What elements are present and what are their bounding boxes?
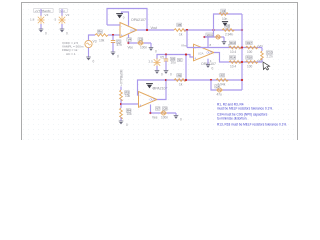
U1 feedback loop wire [107, 9, 147, 31]
svg-text:5: 5 [55, 18, 57, 22]
capacitor C6 [165, 55, 167, 60]
ground [149, 48, 154, 51]
resistor R3 [229, 46, 241, 49]
svg-text:R13, R18 must be MELF resistor: R13, R18 must be MELF resistors toleranc… [217, 123, 287, 127]
source V3 circle [85, 40, 92, 47]
node at riser x213 [212, 29, 214, 31]
svg-text:OUT: OUT [130, 28, 136, 32]
U1 V+ stub into loop [122, 12, 129, 26]
svg-text:Vcm: Vcm [207, 33, 213, 37]
svg-text:2.5: 2.5 [149, 60, 154, 64]
node rail1/col [241, 46, 243, 48]
ground under chain [119, 121, 124, 124]
svg-text:+: + [194, 57, 196, 61]
source V4 [37, 16, 44, 25]
resistor R4 [246, 46, 258, 49]
svg-text:2.94k: 2.94k [225, 33, 233, 37]
svg-text:Vee: Vee [152, 116, 158, 120]
node divider mid [120, 103, 122, 105]
svg-text:V2: V2 [66, 13, 70, 17]
ground under V2 [60, 29, 65, 32]
svg-text:C3: C3 [222, 9, 226, 13]
svg-text:0: 0 [155, 50, 157, 54]
svg-text:+VTPBattM: +VTPBattM [35, 9, 51, 13]
svg-text:47n: 47n [117, 43, 123, 47]
svg-text:OUT: OUT [150, 98, 156, 102]
svg-text:1k: 1k [179, 33, 183, 37]
pin label boxes [127, 38, 132, 41]
svg-text:+: + [139, 103, 141, 107]
wire V4 top [40, 9, 42, 16]
svg-text:1.8: 1.8 [30, 18, 35, 22]
svg-text:10k: 10k [99, 38, 105, 42]
svg-text:must be MELF resistors toleran: must be MELF resistors tolerance 0.1%. [217, 106, 273, 110]
svg-text:0: 0 [117, 55, 119, 59]
U3 feedback loop [138, 80, 167, 100]
ground under V3 [86, 57, 91, 60]
page background [0, 0, 320, 140]
svg-text:R5: R5 [178, 23, 182, 27]
ground inside U1 loop [116, 13, 123, 15]
svg-text:R10: R10 [230, 41, 236, 45]
svg-text:0: 0 [212, 67, 214, 71]
svg-text:100: 100 [247, 64, 253, 68]
node y80 at x211 [210, 79, 212, 81]
svg-text:V4: V4 [128, 38, 132, 42]
svg-text:+: + [121, 34, 123, 38]
wire V3 to gnd [88, 48, 90, 58]
U1 output wire [137, 29, 174, 31]
resistor R8 vertical [120, 108, 123, 119]
node rail2/col [241, 61, 243, 63]
svg-text:1k: 1k [179, 82, 183, 86]
node y80 at x186 [185, 79, 187, 81]
svg-text:R14: R14 [230, 56, 236, 60]
U1 output node [146, 29, 148, 31]
source V2 [58, 16, 65, 25]
resistor R2 in row [222, 29, 234, 32]
svg-text:0: 0 [45, 32, 47, 36]
wire R1 to node [185, 29, 243, 31]
svg-text:AC = 1: AC = 1 [66, 52, 76, 56]
node y80 at x242 [241, 79, 243, 81]
rail y62 [229, 61, 262, 63]
svg-text:+VTPBattM: +VTPBattM [119, 69, 123, 86]
svg-text:47u: 47u [217, 93, 223, 97]
riser x213 loop [214, 14, 243, 37]
svg-text:-: - [121, 24, 122, 28]
svg-text:OPA2107: OPA2107 [153, 86, 168, 90]
svg-text:C4: C4 [216, 84, 220, 88]
svg-text:0: 0 [126, 123, 128, 127]
svg-text:10.4: 10.4 [230, 50, 236, 54]
node at C6 [165, 53, 167, 55]
wire to U3 + input [121, 103, 139, 105]
svg-text:0: 0 [66, 32, 68, 36]
resistor R6 [246, 61, 258, 64]
wire corner to ground [150, 43, 152, 48]
svg-text:10.4: 10.4 [230, 64, 236, 68]
svg-text:Vfm: Vfm [181, 44, 187, 48]
svg-text:V5: V5 [160, 56, 164, 60]
svg-text:R6: R6 [178, 73, 182, 77]
svg-text:to minimize distortion.: to minimize distortion. [217, 116, 247, 120]
U1 V- stub [128, 34, 130, 43]
svg-text:10u: 10u [171, 61, 177, 65]
ground inside U3 loop [146, 83, 153, 85]
ground under C1 [111, 52, 116, 55]
column x242 down [241, 14, 243, 90]
svg-text:-: - [195, 46, 196, 50]
schematic canvas with faint grid dots [21, 2, 298, 140]
svg-text:V4: V4 [45, 13, 49, 17]
wire V4 bottom [40, 24, 42, 30]
svg-text:V7: V7 [156, 107, 160, 111]
ground mark under loop cap [222, 21, 228, 23]
wire V2 top [61, 9, 63, 16]
frame border left [21, 2, 23, 140]
net label Vcc [59, 9, 67, 13]
U1 - input wire [107, 24, 120, 26]
svg-text:R18: R18 [247, 56, 253, 60]
svg-text:R7: R7 [221, 73, 225, 77]
svg-text:10k: 10k [127, 112, 133, 116]
svg-text:0: 0 [170, 73, 172, 77]
svg-text:Vout: Vout [151, 26, 158, 30]
svg-text:0: 0 [180, 118, 182, 122]
wire V2 bottom [61, 24, 63, 30]
svg-text:Vee: Vee [128, 46, 134, 50]
svg-text:OUT: OUT [207, 51, 213, 55]
svg-text:U2A: U2A [198, 51, 204, 55]
node R1/R2 [186, 29, 188, 31]
svg-text:Rs: Rs [98, 30, 102, 34]
U2 V+ stub [207, 37, 209, 47]
svg-text:OPA2107: OPA2107 [131, 18, 146, 22]
svg-text:V3: V3 [93, 40, 97, 44]
source V5 [153, 58, 160, 67]
svg-text:0: 0 [161, 73, 163, 77]
svg-text:100n: 100n [140, 46, 147, 50]
node [127, 42, 129, 44]
bypass cap C5 [137, 41, 144, 45]
svg-text:xVN: xVN [257, 44, 263, 48]
svg-text:10k: 10k [125, 94, 131, 98]
resistor R10 [216, 79, 228, 82]
U3 output node [165, 79, 167, 81]
ground under V4 [39, 29, 44, 32]
net alias box [178, 58, 183, 61]
node at C1 tap [112, 34, 114, 36]
resistor R5 [229, 61, 241, 64]
svg-text:C8: C8 [163, 107, 167, 111]
svg-text:10n: 10n [222, 17, 228, 21]
wire to bypass cap [129, 42, 152, 44]
mouse cursor [263, 62, 270, 70]
svg-text:100n: 100n [161, 116, 168, 120]
cap C3 in loop [219, 13, 228, 16]
svg-text:Vr: Vr [178, 58, 181, 62]
frame border top [21, 2, 298, 4]
node at column x242 [241, 29, 243, 31]
svg-text:100: 100 [247, 50, 253, 54]
frame border right [297, 2, 299, 140]
U2 V- stub to ground [207, 59, 209, 65]
resistor R7 vertical [120, 90, 123, 101]
svg-text:0: 0 [93, 60, 95, 64]
svg-text:-: - [140, 94, 141, 98]
svg-text:2.2n: 2.2n [267, 55, 273, 59]
svg-text:R17: R17 [247, 41, 253, 45]
net label +VTPBattM [34, 9, 54, 13]
wire Rs to U1 + input [108, 34, 120, 36]
resistor R9 [174, 79, 186, 82]
wire V3 up to input row [89, 35, 96, 40]
resistor RG vertical [261, 51, 264, 60]
